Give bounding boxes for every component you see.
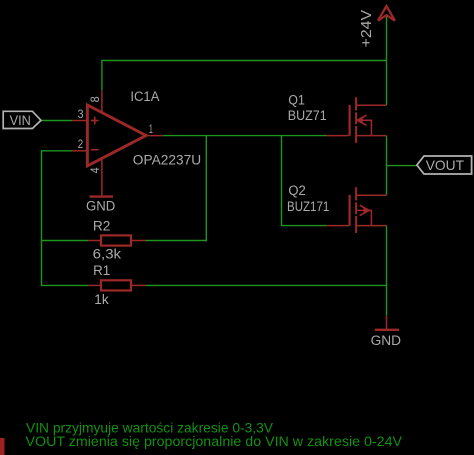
Q2 bulk arrow fill bbox=[364, 207, 370, 213]
svg-text:OPA2237U: OPA2237U bbox=[133, 152, 201, 167]
Q1 bulk arrow barbs (points left) bbox=[357, 115, 366, 120]
wire: R1 right to Q2 source rail bbox=[146, 284, 387, 286]
svg-text:VOUT zmienia się proporcjonaln: VOUT zmienia się proporcjonalnie do VIN … bbox=[26, 434, 403, 449]
supply +24V arrow bbox=[378, 6, 395, 21]
resistor R1 bbox=[88, 280, 145, 290]
svg-text:IC1A: IC1A bbox=[130, 89, 159, 104]
wire: Q1 source to Q2 drain bbox=[386, 136, 388, 196]
wire: node to R2 left bbox=[42, 240, 89, 242]
op-amp pin1 lead bbox=[146, 135, 163, 137]
transistor Q2 (BUZ171 p-mosfet) bbox=[327, 187, 387, 233]
op-amp pin8 lead bbox=[101, 90, 103, 113]
op-amp plus symbol bbox=[91, 117, 99, 125]
Q2 gate bar bbox=[349, 195, 351, 226]
Q2 drain lead bbox=[357, 194, 387, 196]
svg-text:3: 3 bbox=[78, 107, 84, 121]
Q1 source lead bbox=[357, 135, 387, 137]
svg-text:8: 8 bbox=[88, 96, 102, 102]
svg-text:+24V: +24V bbox=[359, 10, 375, 48]
wire: R2 right up to output line bbox=[146, 136, 207, 241]
ground GND under op-amp bbox=[90, 195, 114, 197]
op-amp pin2 lead bbox=[72, 150, 87, 152]
Q1 channel dashes bbox=[355, 97, 357, 110]
Q1 bulk arrow fill bbox=[357, 117, 363, 123]
op-amp pin3 lead bbox=[72, 120, 87, 122]
Q1 gate bar bbox=[349, 105, 351, 136]
svg-text:Q2: Q2 bbox=[288, 183, 305, 198]
Q1 bulk shaft and down link bbox=[357, 120, 371, 135]
Q2 bulk shaft and down link bbox=[357, 210, 372, 225]
svg-text:1: 1 bbox=[149, 122, 153, 136]
ground GND bottom right bbox=[386, 316, 388, 329]
svg-text:VOUT: VOUT bbox=[426, 158, 465, 173]
wire: op-amp output to Q1 gate bbox=[163, 135, 327, 137]
svg-text:R2: R2 bbox=[93, 219, 111, 234]
svg-text:GND: GND bbox=[371, 333, 402, 348]
svg-text:2: 2 bbox=[78, 137, 83, 151]
svg-text:4: 4 bbox=[88, 167, 102, 173]
svg-text:R1: R1 bbox=[93, 263, 110, 278]
svg-text:1k: 1k bbox=[94, 292, 109, 307]
transistor Q1 (BUZ71 n-mosfet) bbox=[327, 97, 387, 143]
wire: branch down to Q2 gate bbox=[282, 136, 327, 226]
Q2 channel dashes bbox=[355, 187, 357, 200]
Q2 source lead bbox=[357, 225, 387, 227]
wire: VIN to pin3 bbox=[41, 120, 72, 122]
op-amp IC1A triangle bbox=[87, 105, 146, 166]
wire: pin2 left, down, to R1 left bbox=[42, 151, 89, 286]
wire: pin8 up and across to +24V rail bbox=[102, 61, 387, 91]
wire: +24V rail down to Q1 drain bbox=[386, 15, 388, 105]
svg-text:Q1: Q1 bbox=[288, 93, 304, 108]
svg-text:6,3k: 6,3k bbox=[93, 246, 122, 261]
op-amp minus symbol bbox=[91, 149, 99, 151]
wire: VOUT tap bbox=[387, 165, 417, 167]
svg-text:VIN: VIN bbox=[10, 113, 31, 128]
svg-text:BUZ171: BUZ171 bbox=[287, 199, 329, 214]
VIN connector flag bbox=[3, 111, 41, 128]
Q1 gate lead bbox=[327, 135, 349, 137]
Q2 bulk arrow barbs (points right) bbox=[360, 205, 369, 210]
wire: Q2 source down to GND bbox=[386, 226, 388, 316]
red cursor mark bottom-left bbox=[0, 438, 5, 455]
resistor R2 bbox=[88, 235, 145, 245]
op-amp pin4 lead bbox=[101, 158, 103, 195]
svg-text:GND: GND bbox=[86, 198, 116, 213]
VOUT connector flag bbox=[417, 156, 472, 174]
Q1 drain lead bbox=[357, 104, 387, 106]
svg-text:BUZ71: BUZ71 bbox=[288, 108, 327, 123]
Q2 gate lead bbox=[327, 225, 349, 227]
